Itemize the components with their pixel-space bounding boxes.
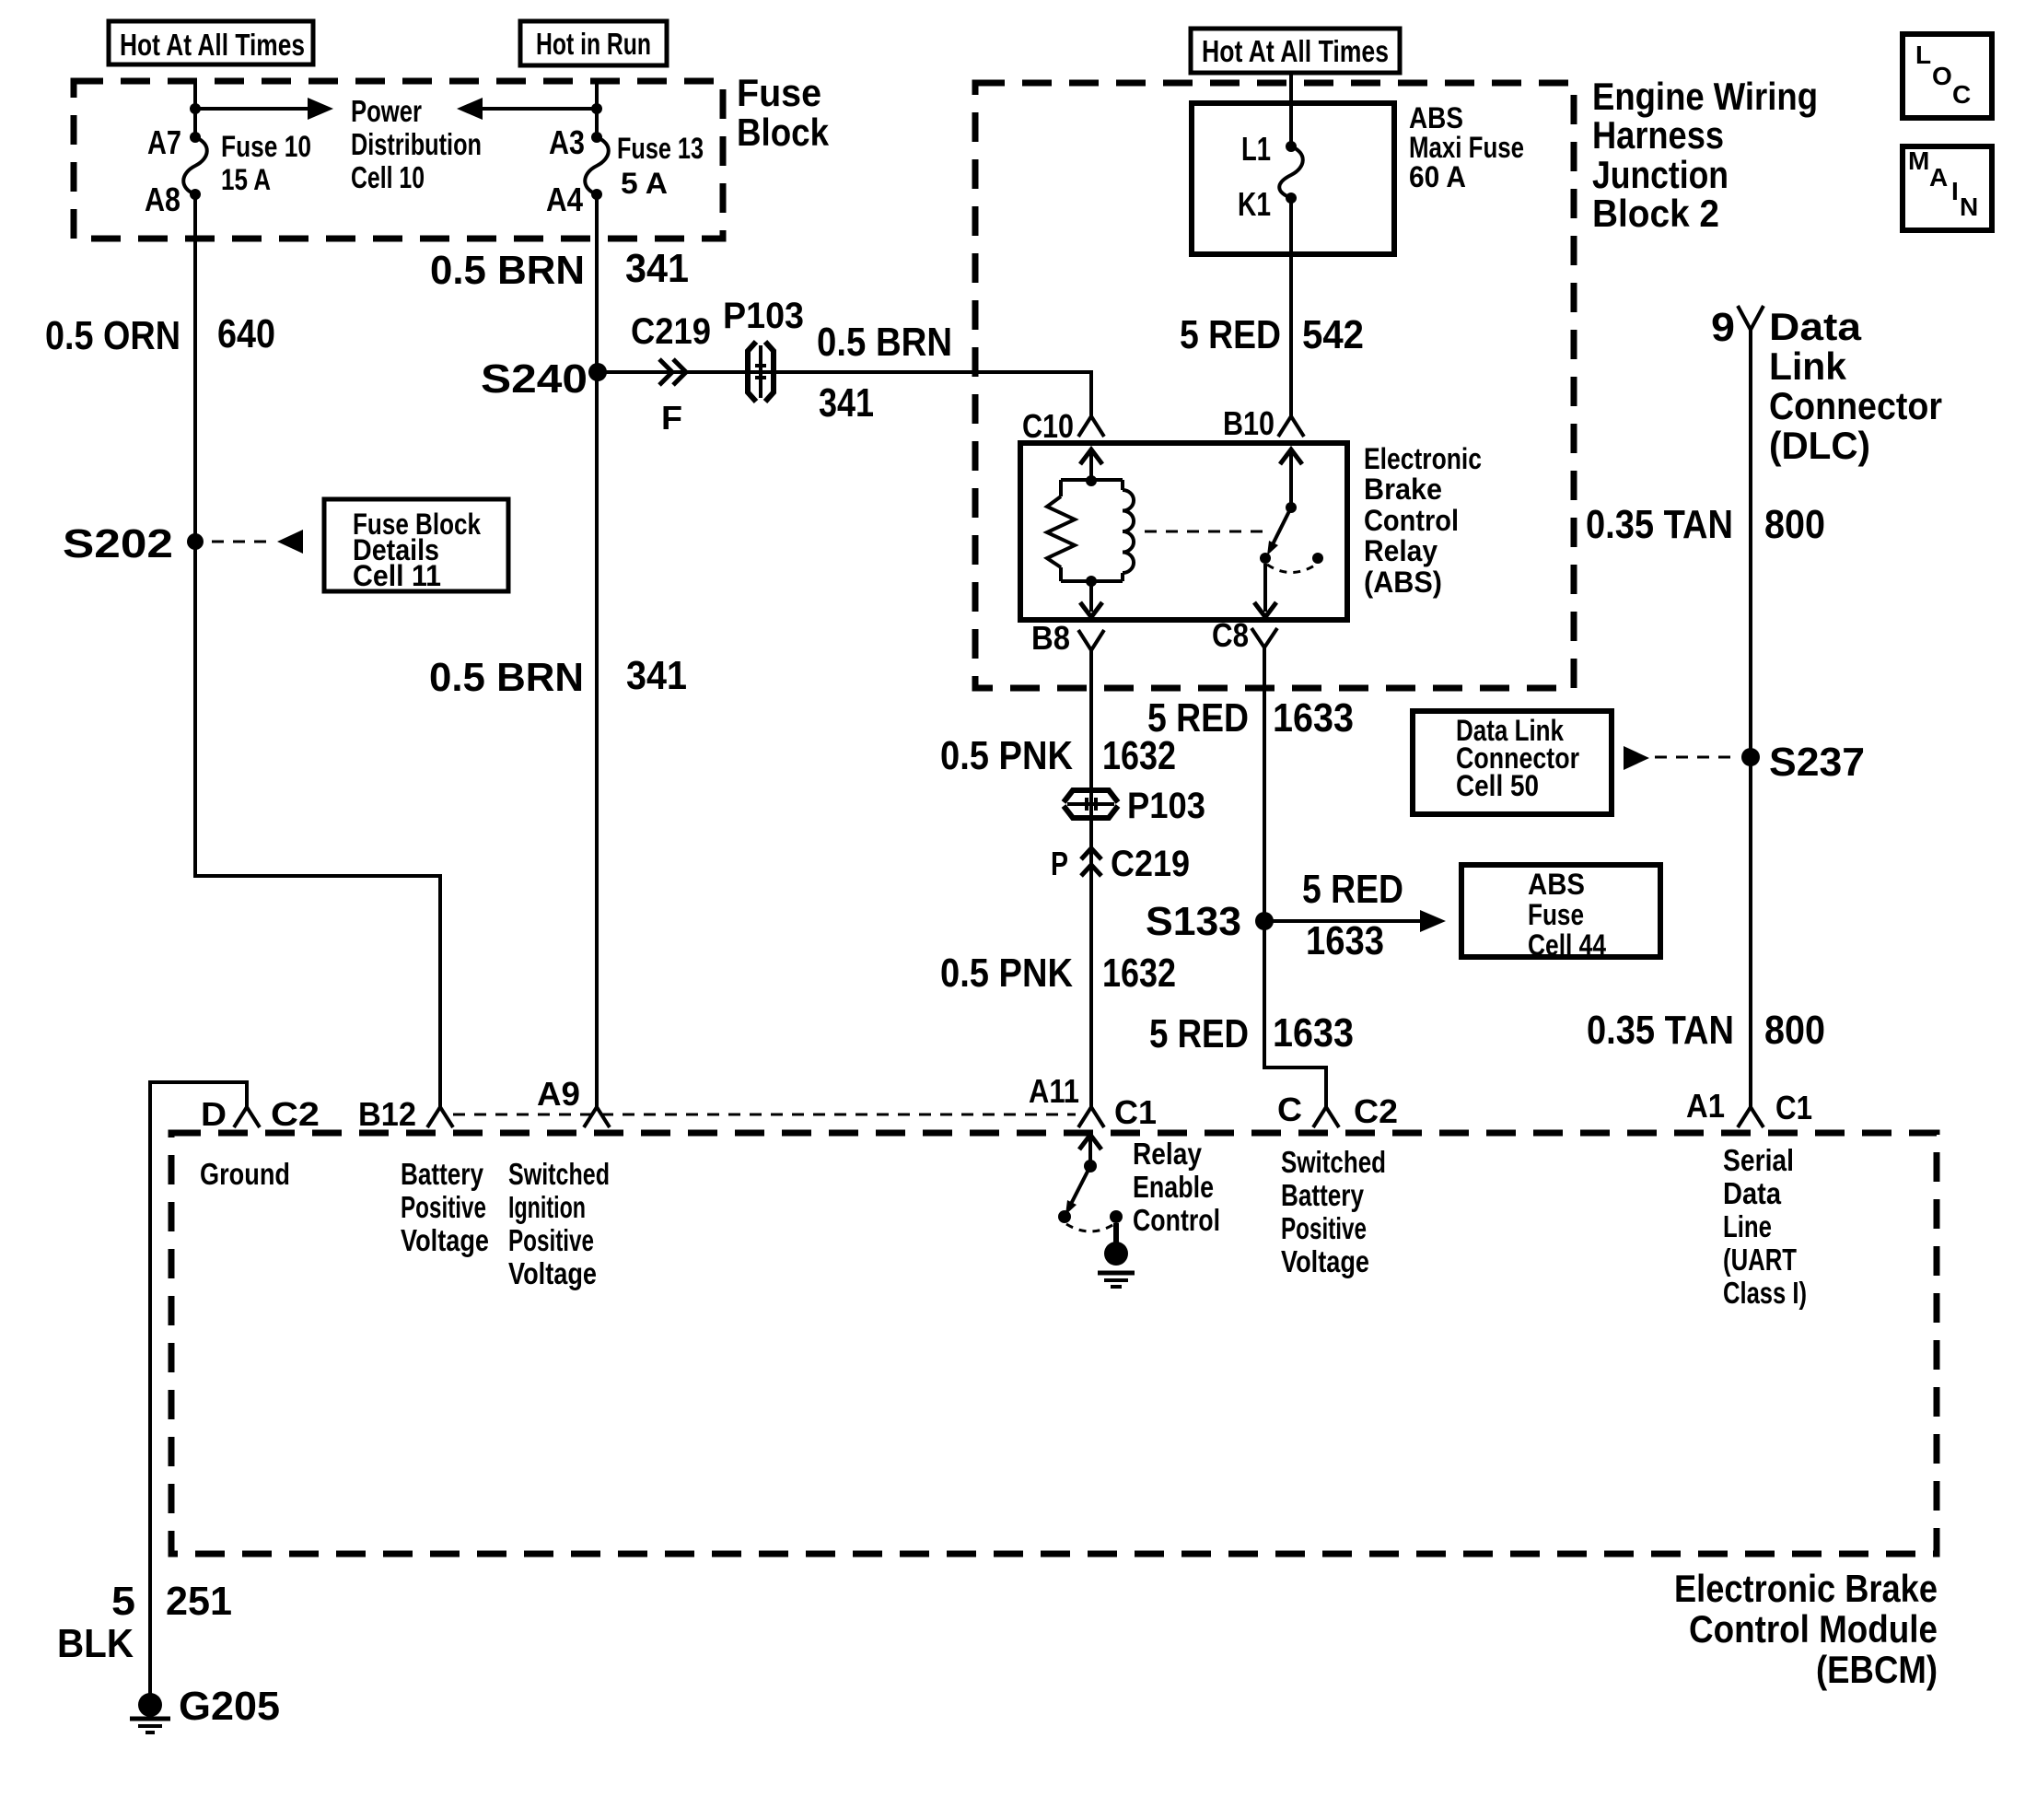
svg-text:A7: A7 bbox=[147, 123, 181, 161]
label box "Hot At All Times" (right) bbox=[1191, 29, 1400, 73]
connector P103 grommet (horizontal) bbox=[1064, 790, 1118, 818]
svg-text:Block 2: Block 2 bbox=[1592, 192, 1719, 235]
dashed reference link to S237 bbox=[1624, 746, 1739, 770]
splice S237 bbox=[1741, 748, 1760, 766]
svg-text:0.5 BRN: 0.5 BRN bbox=[817, 320, 952, 365]
ground G205 bbox=[130, 1693, 170, 1732]
relay enable control input arrow bbox=[1079, 1135, 1101, 1166]
svg-text:Cell 50: Cell 50 bbox=[1456, 769, 1539, 802]
terminal C bbox=[1313, 1107, 1339, 1127]
svg-text:S133: S133 bbox=[1146, 899, 1241, 944]
MAIN reference box bbox=[1903, 146, 1992, 230]
label "Electronic Brake Control Relay (ABS)" bbox=[1364, 442, 1482, 599]
terminal A1 bbox=[1738, 1107, 1763, 1127]
wire: circuit 341 from A4 down to A9 bbox=[595, 194, 599, 1107]
svg-text:640: 640 bbox=[217, 311, 275, 356]
svg-text:A3: A3 bbox=[549, 123, 585, 161]
svg-text:(UART: (UART bbox=[1723, 1242, 1797, 1277]
relay box (Electronic Brake Control Relay) bbox=[1020, 443, 1347, 620]
svg-text:A9: A9 bbox=[537, 1075, 580, 1113]
svg-text:S202: S202 bbox=[63, 521, 173, 566]
svg-text:B12: B12 bbox=[358, 1095, 416, 1133]
svg-text:Voltage: Voltage bbox=[508, 1256, 597, 1290]
svg-text:5 RED: 5 RED bbox=[1302, 867, 1403, 912]
svg-text:Electronic Brake: Electronic Brake bbox=[1674, 1567, 1938, 1610]
svg-text:Switched: Switched bbox=[508, 1157, 610, 1191]
svg-text:Enable: Enable bbox=[1133, 1170, 1214, 1204]
wire: circuit 640 from A8 down, over to B12 bbox=[195, 194, 440, 1107]
svg-text:C2: C2 bbox=[271, 1095, 320, 1133]
svg-text:Relay: Relay bbox=[1364, 534, 1438, 567]
svg-text:Control: Control bbox=[1133, 1203, 1220, 1237]
svg-text:Cell 10: Cell 10 bbox=[351, 160, 425, 194]
dashed reference link to Fuse Block Details bbox=[212, 530, 303, 554]
svg-text:Harness: Harness bbox=[1592, 113, 1724, 157]
svg-text:0.5 PNK: 0.5 PNK bbox=[940, 733, 1073, 778]
svg-text:C: C bbox=[1952, 80, 1971, 109]
svg-text:5 RED: 5 RED bbox=[1149, 1011, 1249, 1056]
svg-text:0.5 PNK: 0.5 PNK bbox=[940, 951, 1073, 996]
svg-text:15 A: 15 A bbox=[221, 163, 271, 196]
label "Relay Enable Control" bbox=[1133, 1137, 1220, 1237]
wire: arrow from S133 to ABS Fuse bbox=[1264, 910, 1446, 932]
label "Electronic Brake Control Module (EBCM)" bbox=[1674, 1567, 1938, 1691]
svg-text:(EBCM): (EBCM) bbox=[1816, 1648, 1938, 1691]
svg-text:Control Module: Control Module bbox=[1689, 1607, 1938, 1651]
wire: arrow to Power Distribution bbox=[195, 98, 333, 120]
svg-text:F: F bbox=[661, 399, 682, 437]
svg-text:Serial: Serial bbox=[1723, 1143, 1794, 1177]
LOC reference box bbox=[1903, 34, 1992, 118]
svg-text:341: 341 bbox=[626, 653, 687, 698]
svg-text:Link: Link bbox=[1769, 344, 1847, 388]
svg-text:Relay: Relay bbox=[1133, 1137, 1203, 1171]
svg-text:Positive: Positive bbox=[1281, 1211, 1367, 1245]
reference box "ABS Fuse Cell 44" bbox=[1461, 865, 1660, 962]
label "Fuse Block" bbox=[737, 71, 830, 154]
svg-text:Data: Data bbox=[1769, 305, 1862, 348]
terminal D bbox=[234, 1107, 260, 1127]
label "5 RED 1633" (at S133 arrow) bbox=[1302, 867, 1403, 963]
svg-text:Positive: Positive bbox=[401, 1190, 486, 1224]
inductor coil (relay winding) bbox=[1123, 490, 1134, 573]
svg-text:Data: Data bbox=[1723, 1176, 1782, 1210]
label "Switched Battery Positive Voltage" bbox=[1281, 1145, 1386, 1278]
svg-text:P: P bbox=[1051, 845, 1068, 882]
svg-text:C2: C2 bbox=[1354, 1092, 1398, 1130]
svg-text:M: M bbox=[1908, 146, 1929, 175]
splice S202 bbox=[187, 533, 204, 550]
svg-text:S240: S240 bbox=[481, 356, 588, 402]
connector P103 grommet (vertical) bbox=[748, 342, 774, 402]
svg-text:9: 9 bbox=[1711, 305, 1735, 350]
wire: Hot At All Times feed into maxi fuse bbox=[1289, 73, 1293, 146]
thin dashed connector face line B12 to A11 bbox=[453, 1114, 1076, 1116]
svg-text:Line: Line bbox=[1723, 1209, 1772, 1243]
wire: ground circuit 251 from D to G205 bbox=[150, 1082, 247, 1694]
svg-text:ABS: ABS bbox=[1528, 868, 1585, 901]
svg-text:G205: G205 bbox=[179, 1684, 280, 1729]
fuse: ABS maxi fuse 60 A bbox=[1279, 141, 1303, 204]
svg-text:Fuse 10: Fuse 10 bbox=[221, 130, 311, 163]
label "0.5 PNK 1632" (upper) bbox=[940, 733, 1176, 778]
svg-text:C1: C1 bbox=[1775, 1089, 1812, 1126]
fuse F13 (Fuse 13 5 A) bbox=[585, 132, 609, 200]
svg-text:A: A bbox=[1929, 163, 1948, 192]
reference box "Fuse Block Details Cell 11" bbox=[324, 499, 508, 592]
svg-text:Cell 44: Cell 44 bbox=[1528, 928, 1606, 962]
svg-text:341: 341 bbox=[819, 380, 874, 426]
label "Switched Ignition Positive Voltage" bbox=[508, 1157, 610, 1290]
svg-text:D: D bbox=[201, 1095, 227, 1133]
wire: circuit 542 from K1 to relay B10 bbox=[1289, 198, 1293, 416]
splice S240 bbox=[588, 363, 607, 381]
label "ABS Maxi Fuse 60 A" bbox=[1409, 101, 1524, 193]
connector C219 cavity P (inline arrows up) bbox=[1081, 848, 1101, 876]
svg-text:341: 341 bbox=[625, 246, 689, 291]
dashed actuation link bbox=[1145, 531, 1269, 533]
wire: Hot At All Times feed to fuse 10 bbox=[193, 81, 197, 137]
label "0.35 TAN 800" (upper) bbox=[1586, 502, 1825, 547]
label "0.5 ORN 640" bbox=[45, 311, 275, 358]
svg-text:0.5 BRN: 0.5 BRN bbox=[429, 655, 584, 700]
label "5 RED 1633" (lower) bbox=[1149, 1010, 1354, 1056]
svg-text:1633: 1633 bbox=[1273, 695, 1354, 741]
terminal A11 bbox=[1078, 1107, 1104, 1127]
svg-text:Ground: Ground bbox=[200, 1157, 290, 1191]
svg-text:Hot At All Times: Hot At All Times bbox=[120, 28, 305, 62]
terminal C10 bbox=[1078, 416, 1104, 437]
reference box "Data Link Connector Cell 50" bbox=[1413, 711, 1612, 814]
svg-text:C219: C219 bbox=[631, 311, 711, 352]
ground (relay enable control) bbox=[1098, 1223, 1135, 1287]
wire: circuit 341 from S240 to relay C10 bbox=[598, 372, 1091, 416]
svg-text:I: I bbox=[1951, 177, 1959, 205]
svg-text:Cell 11: Cell 11 bbox=[353, 559, 441, 592]
svg-text:542: 542 bbox=[1302, 312, 1364, 357]
splice S133 bbox=[1255, 912, 1274, 930]
svg-text:5 RED: 5 RED bbox=[1147, 695, 1249, 741]
svg-text:BLK: BLK bbox=[57, 1621, 134, 1666]
fuse F10 (Fuse 10 15 A) bbox=[183, 132, 207, 200]
svg-text:Battery: Battery bbox=[401, 1157, 484, 1191]
label "0.5 BRN 341" (above S240) bbox=[430, 246, 689, 293]
svg-text:1632: 1632 bbox=[1102, 951, 1176, 996]
svg-text:Voltage: Voltage bbox=[1281, 1244, 1369, 1278]
svg-text:B8: B8 bbox=[1031, 619, 1070, 657]
engine wiring harness junction block 2 dashed box bbox=[975, 83, 1574, 688]
wire: circuit 1633 from C8 to C bbox=[1264, 647, 1326, 1107]
svg-text:Maxi Fuse: Maxi Fuse bbox=[1409, 131, 1524, 164]
svg-text:B10: B10 bbox=[1223, 404, 1275, 442]
svg-text:(DLC): (DLC) bbox=[1769, 424, 1870, 467]
svg-text:Battery: Battery bbox=[1281, 1178, 1365, 1212]
label "Serial Data Line (UART Class I)" bbox=[1723, 1143, 1807, 1310]
terminal B10 bbox=[1278, 416, 1304, 437]
relay switch branch (B10 to C8) bbox=[1254, 449, 1323, 617]
svg-text:Distribution: Distribution bbox=[351, 127, 482, 161]
label "0.35 TAN 800" (lower) bbox=[1587, 1008, 1825, 1053]
svg-text:P103: P103 bbox=[1127, 786, 1205, 826]
svg-text:Hot At All Times: Hot At All Times bbox=[1202, 34, 1389, 68]
svg-text:Electronic: Electronic bbox=[1364, 442, 1482, 475]
svg-text:P103: P103 bbox=[723, 296, 804, 336]
svg-text:Fuse: Fuse bbox=[1528, 898, 1584, 931]
ABS maxi fuse box bbox=[1192, 103, 1394, 254]
svg-text:800: 800 bbox=[1764, 1008, 1825, 1053]
node: junction dot on fuse 10 feed bbox=[190, 103, 201, 114]
svg-text:L1: L1 bbox=[1241, 130, 1271, 168]
wire: circuit 1632 from B8 to A11 bbox=[1089, 650, 1093, 1107]
svg-text:Connector: Connector bbox=[1769, 384, 1942, 427]
svg-text:Power: Power bbox=[351, 94, 422, 128]
terminal B12 bbox=[427, 1107, 453, 1127]
svg-text:0.35 TAN: 0.35 TAN bbox=[1587, 1008, 1734, 1053]
node: junction dot on fuse 13 feed bbox=[591, 103, 602, 114]
label "5 RED 1633" (upper) bbox=[1147, 695, 1354, 741]
wire: Hot in Run feed to fuse 13 bbox=[595, 81, 599, 137]
svg-text:Block: Block bbox=[737, 111, 830, 154]
svg-text:1633: 1633 bbox=[1306, 918, 1384, 963]
label box "Hot in Run" bbox=[520, 21, 667, 65]
wire: arrow to Power Distribution (left pointing) bbox=[457, 98, 597, 120]
svg-text:60 A: 60 A bbox=[1409, 160, 1466, 193]
svg-text:1633: 1633 bbox=[1273, 1010, 1354, 1056]
terminal B8 bbox=[1078, 630, 1104, 650]
fuse block dashed box bbox=[74, 81, 723, 239]
label box "Hot At All Times" (left) bbox=[109, 21, 313, 64]
svg-text:0.5 BRN: 0.5 BRN bbox=[430, 248, 585, 293]
svg-text:N: N bbox=[1960, 192, 1978, 221]
svg-text:Brake: Brake bbox=[1364, 472, 1442, 506]
svg-text:800: 800 bbox=[1764, 502, 1825, 547]
svg-text:Control: Control bbox=[1364, 504, 1459, 537]
label "Battery Positive Voltage" bbox=[401, 1157, 489, 1257]
connector C219 cavity F (inline arrows) bbox=[659, 359, 686, 385]
svg-text:Positive: Positive bbox=[508, 1223, 594, 1257]
label "5 RED 542" bbox=[1180, 312, 1364, 357]
label "0.5 PNK 1632" (lower) bbox=[940, 951, 1176, 996]
terminal 9 (DLC) bbox=[1738, 306, 1763, 330]
label "Engine Wiring Harness Junction Block 2" bbox=[1592, 75, 1818, 235]
terminal A9 bbox=[584, 1107, 610, 1127]
svg-text:Junction: Junction bbox=[1592, 153, 1729, 196]
svg-text:C10: C10 bbox=[1022, 407, 1074, 445]
svg-text:Switched: Switched bbox=[1281, 1145, 1386, 1179]
svg-text:Voltage: Voltage bbox=[401, 1223, 489, 1257]
svg-text:Engine Wiring: Engine Wiring bbox=[1592, 75, 1818, 118]
svg-text:5 RED: 5 RED bbox=[1180, 312, 1281, 357]
svg-text:S237: S237 bbox=[1769, 740, 1865, 785]
svg-text:(ABS): (ABS) bbox=[1364, 566, 1442, 599]
EBCM dashed box bbox=[171, 1133, 1937, 1554]
svg-text:Class I): Class I) bbox=[1723, 1276, 1807, 1310]
svg-text:251: 251 bbox=[166, 1579, 232, 1624]
label "Fuse 10 / 15 A" bbox=[221, 130, 311, 196]
switch: relay enable control bbox=[1058, 1160, 1123, 1231]
svg-text:Ignition: Ignition bbox=[508, 1190, 586, 1224]
label "Fuse 13 / 5 A" bbox=[617, 132, 704, 200]
terminal C8 bbox=[1251, 628, 1277, 647]
svg-text:5: 5 bbox=[111, 1579, 135, 1624]
svg-text:C: C bbox=[1277, 1091, 1302, 1128]
svg-text:A4: A4 bbox=[546, 181, 583, 218]
svg-text:0.5 ORN: 0.5 ORN bbox=[45, 313, 180, 358]
svg-text:O: O bbox=[1932, 62, 1952, 90]
svg-text:C8: C8 bbox=[1212, 616, 1249, 654]
svg-text:C1: C1 bbox=[1114, 1093, 1157, 1131]
svg-text:K1: K1 bbox=[1238, 185, 1271, 223]
label "0.5 BRN 341" (horizontal run) bbox=[817, 320, 952, 426]
svg-text:C219: C219 bbox=[1111, 844, 1190, 884]
svg-text:Fuse 13: Fuse 13 bbox=[617, 132, 704, 165]
svg-text:Hot in Run: Hot in Run bbox=[536, 27, 651, 61]
svg-text:5 A: 5 A bbox=[621, 167, 668, 200]
svg-text:A8: A8 bbox=[145, 181, 180, 218]
label "Data Link Connector (DLC)" bbox=[1769, 305, 1942, 467]
svg-text:L: L bbox=[1915, 41, 1931, 69]
label "5 BLK 251" bbox=[57, 1579, 232, 1666]
label "0.5 BRN 341" (below S240) bbox=[429, 653, 687, 700]
resistor (relay coil suppression) bbox=[1047, 496, 1075, 567]
svg-text:Fuse: Fuse bbox=[737, 71, 821, 114]
svg-text:0.35 TAN: 0.35 TAN bbox=[1586, 502, 1733, 547]
wire: circuit 800 from DLC to A1 bbox=[1749, 330, 1752, 1107]
svg-text:ABS: ABS bbox=[1409, 101, 1463, 134]
svg-text:A11: A11 bbox=[1029, 1072, 1079, 1110]
label "Power Distribution Cell 10" bbox=[351, 94, 482, 194]
relay coil branch (C10 to B8) bbox=[1061, 449, 1123, 617]
svg-text:A1: A1 bbox=[1686, 1087, 1725, 1125]
